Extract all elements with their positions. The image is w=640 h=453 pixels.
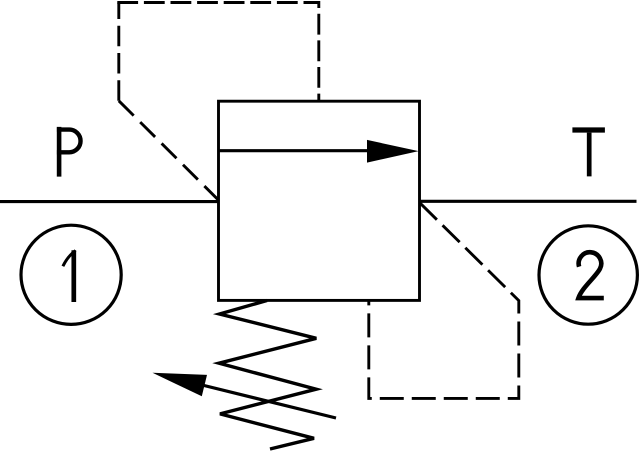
pilot line (dashed, left vertical drop) (117, 3, 120, 101)
drain line (dashed, right loop) (369, 203, 519, 399)
adjustment arrow (head) (153, 373, 208, 397)
adjustment arrow (shaft) (200, 385, 336, 419)
flow path arrow (head) (367, 140, 419, 163)
node 2 digit (578, 252, 603, 298)
node 1 digit (63, 250, 76, 302)
port T line (420, 200, 637, 203)
port label P (57, 127, 81, 177)
spring (219, 301, 316, 450)
pilot line (dashed, diagonal to P junction) (119, 101, 219, 201)
node 2 circle (539, 226, 637, 324)
node 1 circle (21, 225, 121, 324)
pilot line (dashed, top horizontal + right drop) (117, 3, 318, 102)
port label T (572, 130, 605, 176)
port P line (0, 200, 219, 203)
valve body box (219, 101, 420, 300)
flow path arrow (shaft) (219, 149, 373, 152)
